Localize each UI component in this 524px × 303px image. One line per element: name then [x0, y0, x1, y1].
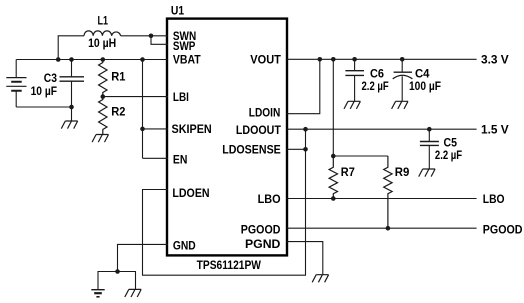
capacitor C4 (polarized): [393, 59, 413, 101]
wire L1 left to VBAT rail: [58, 36, 84, 60]
svg-text:100 µF: 100 µF: [409, 79, 441, 93]
wire C3 bottom to ground: [71, 107, 73, 121]
battery V1: [6, 60, 26, 108]
svg-text:C3: C3: [44, 71, 57, 85]
svg-text:10 µF: 10 µF: [31, 84, 58, 98]
capacitor C5: [420, 129, 439, 169]
wire battery bottom to C3 bottom: [16, 106, 71, 108]
wire SWN to L1 right: [121, 35, 168, 37]
wire LBO rail: [287, 198, 477, 200]
node R7 top junction: [331, 154, 336, 159]
wire SWP stub: [151, 36, 168, 45]
capacitor C3: [60, 60, 85, 108]
svg-text:LBI: LBI: [173, 90, 189, 104]
resistor R1: [99, 60, 107, 97]
wire GND to earth ground: [98, 272, 118, 290]
node C6 top junction: [352, 57, 357, 62]
svg-text:R7: R7: [341, 165, 355, 179]
wire LDOEN down-around to LDO output bus: [143, 129, 306, 275]
node C3 bottom junction: [69, 105, 74, 110]
wire PGND to chassis ground: [287, 242, 323, 275]
node SKIPEN junction: [140, 127, 145, 132]
node VOUT/LDOIN junction: [318, 57, 323, 62]
wire VOUT 3.3V rail: [287, 58, 477, 60]
node SWN-SWP junction: [149, 34, 154, 39]
node C3 top junction: [69, 57, 74, 62]
ground (earth): [91, 290, 104, 297]
svg-text:LDOOUT: LDOOUT: [236, 123, 281, 137]
svg-text:2.2 µF: 2.2 µF: [362, 79, 390, 93]
node C5 top junction: [427, 127, 432, 132]
wire 3.3V to R7/R9 bus: [333, 59, 388, 156]
node R7 bottom / LBO junction: [331, 196, 336, 201]
svg-text:VOUT: VOUT: [250, 53, 281, 67]
svg-text:VBAT: VBAT: [173, 52, 201, 66]
resistor R7: [329, 156, 337, 199]
node R7 bus top junction: [331, 57, 336, 62]
node R9 bottom / PGOOD junction: [386, 226, 391, 231]
node LBI junction: [101, 94, 106, 99]
ground (chassis) below C4: [392, 101, 408, 109]
resistor R2: [99, 97, 107, 135]
svg-text:U1: U1: [171, 3, 184, 17]
svg-text:LDOSENSE: LDOSENSE: [222, 143, 281, 157]
svg-text:PGOOD: PGOOD: [241, 223, 281, 237]
svg-text:SWP: SWP: [173, 39, 196, 53]
ground (chassis) below PGND: [312, 275, 328, 283]
svg-text:LBO: LBO: [258, 192, 281, 206]
svg-text:LDOIN: LDOIN: [249, 105, 281, 119]
ground (chassis) near GND: [125, 289, 141, 297]
svg-text:R1: R1: [111, 69, 125, 83]
svg-text:3.3 V: 3.3 V: [481, 53, 509, 67]
wire LDOSENSE: [287, 148, 306, 150]
node SKIPEN bus top junction: [140, 57, 145, 62]
node R1 top junction: [101, 57, 106, 62]
wire VBAT to SKIPEN/EN bus: [142, 60, 144, 159]
ground (chassis) below R2: [92, 135, 108, 143]
svg-text:LBO: LBO: [483, 192, 505, 206]
wire SKIPEN: [143, 128, 169, 130]
ground (chassis) below C5: [419, 169, 435, 177]
svg-text:PGOOD: PGOOD: [483, 222, 523, 236]
wire LDOOUT 1.5V rail: [287, 128, 477, 130]
svg-text:1.5 V: 1.5 V: [481, 123, 509, 137]
node GND junction: [115, 269, 120, 274]
svg-text:L1: L1: [98, 14, 109, 28]
svg-text:2.2 µF: 2.2 µF: [435, 148, 463, 162]
svg-text:TPS61121PW: TPS61121PW: [197, 258, 262, 272]
capacitor C6: [345, 59, 364, 101]
wire VBAT rail: [16, 59, 168, 61]
node C4 top junction: [400, 57, 405, 62]
node LDOOUT junction: [303, 127, 308, 132]
ground (chassis) below C6: [344, 101, 360, 109]
wire LDOIN: [287, 59, 320, 113]
svg-text:PGND: PGND: [245, 237, 281, 251]
svg-text:R2: R2: [111, 105, 125, 119]
svg-text:LDOEN: LDOEN: [172, 186, 209, 200]
wire PGOOD rail: [287, 227, 477, 229]
inductor L1: [84, 31, 121, 36]
wire EN: [143, 157, 169, 159]
svg-text:R9: R9: [395, 165, 410, 179]
svg-text:10 µH: 10 µH: [88, 36, 116, 50]
node L1/VBAT junction: [56, 57, 61, 62]
svg-text:EN: EN: [173, 153, 188, 167]
wire GND to chassis ground: [118, 272, 136, 290]
svg-text:SKIPEN: SKIPEN: [172, 122, 212, 136]
wire LBI: [103, 96, 168, 98]
wire GND: [118, 244, 169, 271]
resistor R9: [384, 156, 392, 228]
svg-text:GND: GND: [173, 238, 196, 252]
ground (chassis) below C3: [61, 121, 77, 129]
node LDOSENSE junction: [303, 147, 308, 152]
IC U1 (TPS61121PW) box: [167, 19, 287, 256]
